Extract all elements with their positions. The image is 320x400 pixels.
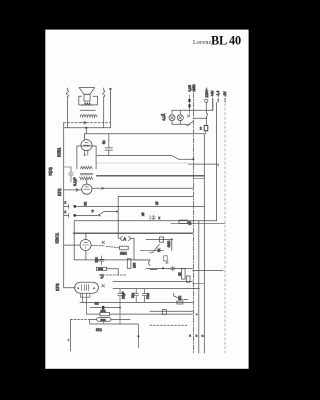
bypass cap C3: [64, 204, 69, 208]
wire lamp bottom rail: [172, 121, 186, 125]
svg-text:4MΩ: 4MΩ: [167, 240, 171, 247]
wire r11 down: [171, 239, 173, 250]
wire corner 89: [90, 319, 139, 324]
svg-text:Lorenz: Lorenz: [193, 40, 212, 46]
AF transformer winding 1: [80, 166, 92, 169]
resistor R10 on row3: [179, 220, 188, 223]
resistor R1: [120, 246, 129, 250]
junction dot a: [162, 267, 164, 269]
wire hf line mid: [179, 158, 194, 160]
wire lamp top rail: [172, 109, 213, 111]
svg-text:300: 300: [101, 318, 106, 322]
cap C4 blob: [73, 214, 76, 217]
vertical volume feed: [73, 221, 75, 260]
trimmer on row: [95, 259, 98, 262]
riser to terminal: [212, 98, 214, 110]
svg-text:25: 25: [178, 272, 182, 276]
tube V4 end triangles: [78, 287, 95, 289]
tick r5 down: [103, 321, 105, 324]
wire step to bus: [85, 128, 87, 134]
cap at row2: [150, 215, 155, 220]
svg-text:KF3: KF3: [55, 283, 60, 291]
blob on row 307: [102, 306, 104, 310]
resistor R11: [160, 237, 164, 242]
terminal stub rail: [216, 103, 218, 221]
svg-text:1x: 1x: [157, 248, 161, 252]
terminal ticks: [218, 98, 225, 102]
tube V2 electrodes: [84, 187, 90, 189]
switch P blade: [75, 212, 104, 216]
wire speaker right drop: [103, 97, 105, 128]
svg-text:x5: x5: [155, 201, 159, 205]
svg-text:20μF: 20μF: [122, 292, 126, 299]
grid cap capacitor C1: [105, 134, 113, 156]
mains terminal circle: [205, 99, 208, 102]
left rail bus: [63, 123, 65, 288]
svg-text:-1,4: -1,4: [216, 91, 220, 97]
cap block 2: [188, 104, 190, 107]
pilot lamp La1: [169, 115, 175, 121]
svg-text:+4V: +4V: [211, 90, 215, 97]
junction dot hf: [192, 158, 194, 160]
cap column down: [119, 302, 121, 324]
chassis dash rail: [224, 99, 226, 353]
wire 178 tie: [193, 178, 204, 180]
fuse Si 2A: [204, 125, 208, 130]
speaker frame bracket: [79, 96, 98, 105]
wire from A down: [130, 239, 150, 260]
pilot lamp La1 cross: [170, 116, 174, 120]
svg-text:KBC1: KBC1: [55, 232, 60, 243]
junction dot 307: [119, 307, 121, 309]
wire heavy bus: [97, 175, 205, 177]
wire row 319: [90, 318, 130, 320]
svg-text:xMΩ: xMΩ: [192, 84, 196, 91]
faint line: [97, 162, 189, 164]
cap C9: [171, 266, 175, 271]
small box mid: [164, 256, 168, 261]
output transformer right winding: [103, 88, 105, 97]
AF transformer core bars: [80, 173, 92, 175]
wire row 250: [140, 250, 164, 252]
junction dot: [85, 127, 87, 129]
wire cap top rail: [113, 288, 200, 290]
diode A bracket: [120, 236, 131, 240]
fuse lead lower: [205, 131, 207, 134]
svg-text:300: 300: [98, 267, 103, 271]
svg-text:A: A: [123, 237, 126, 242]
svg-text:100: 100: [133, 262, 137, 268]
vertical agc feed: [117, 197, 119, 239]
wire dashed tone line: [64, 122, 111, 124]
pilot lamp La2: [177, 115, 183, 121]
wire mid row 3: [171, 222, 225, 224]
switch P contact dots: [99, 215, 101, 217]
svg-text:-2V: -2V: [223, 91, 227, 97]
arrow on plate lead: [102, 187, 105, 190]
AF transformer frame: [77, 146, 96, 169]
svg-text:BL 40: BL 40: [211, 34, 241, 48]
svg-text:0,1: 0,1: [100, 274, 104, 279]
wire row 311: [150, 310, 193, 312]
junction dot r11: [171, 239, 173, 241]
svg-text:1MΩ: 1MΩ: [120, 252, 127, 256]
svg-text:0,1μF: 0,1μF: [73, 178, 77, 187]
wire anode line: [64, 127, 111, 129]
wire c2 stubs: [64, 167, 71, 182]
right rail 1 dash-dot: [192, 84, 194, 353]
wire cathode row: [80, 301, 193, 303]
svg-text:Πτω: Πτω: [146, 292, 150, 299]
wire row 281: [113, 280, 193, 282]
tube V1 bottom legs: [85, 150, 88, 155]
tube V3 top lead: [85, 233, 87, 239]
wire heavy bus 2: [73, 232, 192, 234]
white scanned page: [45, 30, 248, 369]
hum-bucking coil: [81, 103, 93, 106]
svg-text:x8: x8: [141, 212, 145, 216]
wire row 307: [90, 307, 120, 309]
x mark plate: [102, 241, 105, 244]
mains switch hook: [186, 123, 190, 126]
wire hf line to terminal: [189, 164, 219, 166]
resistor R8: [177, 301, 183, 304]
detector cap C5: [99, 256, 104, 265]
cap C3 blob: [73, 205, 76, 208]
tube V2 left lead with arrow: [64, 189, 82, 192]
wire after switch P: [104, 211, 117, 213]
x mark: [187, 115, 190, 117]
resistor R2: [127, 259, 131, 269]
electrolytic C8: [142, 289, 147, 302]
field coil winding: [80, 115, 97, 117]
resistor R3 box 300: [97, 267, 107, 270]
tube V1 top lead: [84, 134, 86, 140]
wire top bus: [85, 133, 205, 135]
junction dot b: [196, 314, 198, 316]
right rail 2: [198, 221, 200, 353]
resistor R6: [182, 269, 186, 280]
tube V1 electrodes: [84, 143, 90, 146]
mains plug hook: [206, 103, 207, 119]
switch S3: [149, 244, 159, 252]
resistor R9 on row: [162, 310, 166, 315]
switch blade hf: [172, 156, 179, 160]
svg-text:25: 25: [188, 221, 192, 225]
tube V1 K051 envelope: [81, 140, 92, 151]
resistor R7: [186, 276, 190, 282]
wire row 239: [146, 238, 172, 240]
tube V3 bottom lead: [85, 251, 87, 260]
svg-text:5Ω: 5Ω: [178, 295, 182, 300]
wire into fuse: [205, 118, 207, 125]
tube V2 plate lead: [92, 187, 193, 189]
wire row 319 dash: [71, 318, 90, 320]
tube V2 top lead: [86, 180, 88, 185]
pilot lamp La2 cross: [178, 116, 182, 120]
bypass cap C4: [64, 213, 69, 217]
switch S4: [149, 260, 157, 270]
wire r3 to corner: [107, 269, 119, 275]
wire lower bus a: [146, 267, 193, 269]
wire speaker left drop: [66, 97, 68, 128]
wire agc line: [118, 196, 193, 198]
wire feed 270: [193, 270, 224, 272]
mains switch blade: [187, 121, 194, 125]
svg-text:10x: 10x: [95, 257, 99, 263]
wire drop 138: [137, 324, 139, 348]
tube V4 left lead: [64, 287, 76, 289]
output transformer left winding: [66, 88, 68, 97]
capacitor block column: [189, 95, 191, 114]
svg-text:K(12): K(12): [49, 167, 53, 175]
wire hf line upper: [97, 155, 172, 157]
svg-text:5Ω: 5Ω: [95, 302, 100, 306]
loudspeaker LS horn: [79, 88, 94, 101]
wire row 314: [87, 313, 193, 315]
resistor R4 300: [100, 313, 110, 316]
svg-text:30x: 30x: [131, 292, 135, 298]
lamp leads: [172, 110, 180, 115]
svg-text:K051: K051: [57, 147, 62, 157]
electrolytic C7: [134, 289, 139, 302]
electrolytic C6: [118, 289, 123, 302]
resistor R5 300: [97, 318, 111, 322]
svg-text:67Ω: 67Ω: [96, 328, 103, 332]
right rail 3: [203, 134, 205, 353]
svg-text:5x: 5x: [102, 140, 106, 144]
pole piece line: [80, 109, 95, 111]
tube V3 KBC1 envelope: [80, 240, 91, 251]
svg-text:300: 300: [101, 309, 106, 313]
tube V4 pin leads: [82, 293, 86, 314]
arrow on dashed line: [80, 121, 86, 124]
switch S2: [174, 293, 188, 300]
x mark right of tube: [102, 284, 105, 287]
tube V3 plate lead: [91, 246, 120, 248]
wire outer vertical: [109, 88, 111, 128]
svg-text:2: 2: [200, 127, 202, 131]
svg-text:0,1A: 0,1A: [162, 113, 166, 121]
cap block 1: [188, 99, 190, 102]
tube V3 electrodes: [83, 242, 89, 248]
wire mid row 2: [75, 220, 217, 222]
AF transformer winding 2: [80, 177, 93, 180]
coupling cap C2: [69, 167, 74, 180]
svg-text:4Ω: 4Ω: [84, 201, 88, 206]
wire mid row 1: [75, 205, 205, 207]
leg blob: [84, 154, 86, 156]
tube V2 envelope: [82, 184, 92, 194]
tube V3 left lead: [64, 244, 80, 246]
arrowhead at feed: [116, 210, 118, 212]
junction dot 138: [137, 335, 139, 337]
tube V4 electrodes: [82, 285, 89, 291]
tube V4 lower bracket: [80, 293, 90, 297]
wire fuse feed: [193, 117, 206, 119]
diode A lead: [118, 238, 119, 240]
dashed chassis line: [150, 324, 188, 326]
x marks mid: [166, 262, 168, 264]
dash avc row: [99, 274, 126, 276]
svg-text:KF2: KF2: [57, 188, 62, 196]
wire volume row: [74, 259, 150, 261]
svg-text:220V~: 220V~: [205, 88, 209, 98]
left bracket vertical: [70, 319, 72, 351]
wire rail tie 283: [193, 283, 205, 285]
small plus mark: [67, 339, 69, 341]
tube V4 KF3 envelope: [75, 282, 99, 293]
